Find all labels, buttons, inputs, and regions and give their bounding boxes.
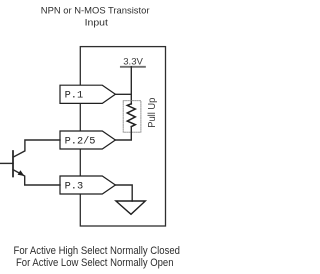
svg-text:NPN or N-MOS Transistor: NPN or N-MOS Transistor: [41, 5, 150, 15]
svg-text:P.3: P.3: [65, 181, 84, 193]
wire: 3.3V rail down to resistor: [130, 67, 132, 104]
wire: resistor bottom to P.2/5 node: [115, 127, 131, 140]
svg-text:Input: Input: [85, 17, 109, 27]
resistor R1 (Pull Up): [127, 104, 135, 127]
svg-text:3.3V: 3.3V: [123, 56, 143, 67]
pin P.3: [60, 176, 115, 194]
svg-text:P.1: P.1: [65, 90, 84, 102]
transistor Q1 base bar: [12, 151, 14, 177]
svg-text:P.2/5: P.2/5: [65, 136, 96, 148]
ground: [116, 201, 145, 214]
wire: P.1 tip to rail: [115, 93, 131, 95]
3.3V power bar: [121, 66, 145, 68]
transistor Q1 emitter: [13, 170, 60, 185]
module box: [80, 47, 165, 226]
svg-text:Pull Up: Pull Up: [147, 97, 158, 127]
emitter arrowhead: [18, 170, 25, 176]
pin P.1: [60, 85, 115, 103]
dashed select box around resistor: [123, 101, 141, 133]
svg-text:For Active High Select Normall: For Active High Select Normally Closed: [14, 245, 181, 257]
pin P.2/5: [60, 131, 115, 149]
wire: P.3 tip to ground: [115, 185, 132, 201]
transistor Q1 collector: [13, 140, 60, 157]
svg-text:For Active Low Select Normally: For Active Low Select Normally Open: [16, 257, 174, 269]
transistor Q1 base lead: [1, 162, 14, 164]
